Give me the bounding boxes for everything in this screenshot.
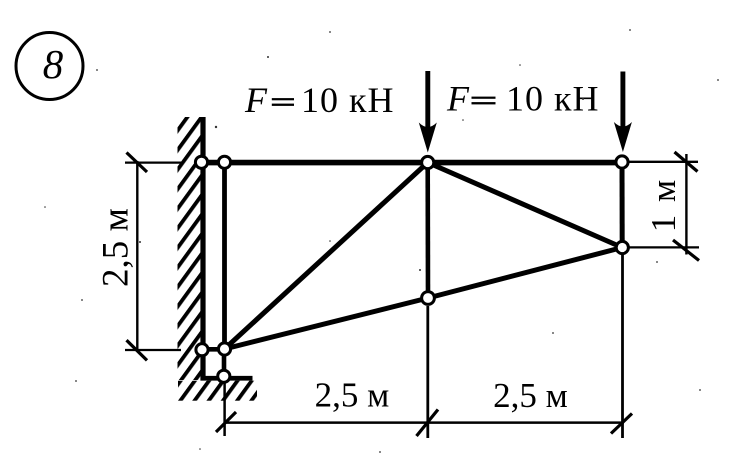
member: diagonal F2-B: [225, 163, 428, 350]
dimension: left tick bottom: [127, 340, 148, 360]
dimension: right tick bottom: [673, 240, 699, 261]
dimension: left 2,5 m line: [136, 161, 138, 351]
node F1 (wall pin bottom): [196, 344, 208, 356]
svg-text:F10 кН: F10 кН: [244, 80, 395, 120]
member: top chord A-C: [201, 160, 623, 166]
dimension: bottom tick middle: [417, 410, 439, 437]
member: bottom chord E-D: [428, 248, 622, 299]
dimension: bottom line: [225, 421, 625, 424]
node D (right lower): [616, 241, 628, 253]
svg-text:1 м: 1 м: [644, 178, 683, 232]
dimension: right tick top: [675, 152, 698, 172]
force label F = 10 kN (left): [244, 80, 395, 120]
svg-text:2,5 м: 2,5 м: [96, 208, 137, 287]
member: bottom chord F2-E: [225, 298, 429, 349]
link: F1-F2 horizontal: [202, 347, 225, 352]
node A1 (wall pin top): [195, 156, 207, 168]
dimension: right 1 m extension top: [629, 161, 698, 163]
link: F2-G support strut: [222, 349, 227, 377]
dimension: bottom tick right: [611, 414, 632, 434]
force label F = 10 kN (right): [446, 79, 600, 119]
wall hatch: [178, 117, 201, 380]
svg-text:8: 8: [43, 41, 64, 87]
force arrow F2 (over node C): [614, 72, 632, 153]
dimension: right 1 m line: [685, 154, 687, 255]
node A2 (top chord left): [218, 156, 230, 168]
dimension: bottom extension middle (below E): [426, 306, 429, 438]
node F2 (bottom chord left): [218, 343, 230, 355]
problem number badge "8": [16, 33, 83, 100]
node B (top middle): [422, 156, 434, 168]
member: right vertical C-D: [620, 163, 625, 248]
wall face line: [200, 117, 205, 381]
support bracket hatch: [178, 381, 257, 401]
svg-text:F10 кН: F10 кН: [446, 79, 600, 119]
dimension: bottom extension left (below G): [223, 383, 226, 436]
support bracket ledge: [201, 376, 253, 381]
member: diagonal B-D: [428, 163, 623, 248]
node G (support pin): [218, 370, 230, 382]
dimension: bottom extension right (below D): [621, 255, 624, 439]
svg-text:2,5 м: 2,5 м: [315, 376, 390, 415]
svg-text:2,5 м: 2,5 м: [493, 376, 568, 415]
dimension: left tick top: [127, 153, 148, 173]
node C (top right): [616, 156, 628, 168]
dimension: left 2,5 m extension top: [125, 161, 181, 163]
dimension: left 2,5 m extension bottom: [125, 349, 181, 351]
member: left vertical A2-F2: [222, 163, 227, 350]
force arrow F1 (over node B): [419, 71, 437, 153]
dimension: right 1 m extension bottom: [630, 246, 700, 248]
node E (bottom middle): [422, 292, 435, 305]
member: vertical B-E: [425, 163, 430, 299]
dimension: bottom tick left: [216, 412, 236, 432]
